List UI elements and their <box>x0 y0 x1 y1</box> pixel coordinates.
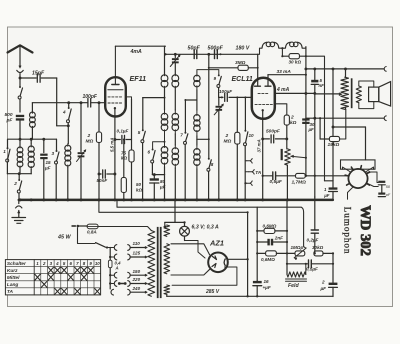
svg-text:EF11: EF11 <box>130 74 147 83</box>
node <box>164 97 166 99</box>
svg-text:Kurz: Kurz <box>7 268 18 274</box>
ground symbol <box>12 218 26 224</box>
switch 7 <box>180 100 188 200</box>
capacitor 1uF <box>323 187 337 200</box>
ECL11 pentode anode pin <box>265 75 271 87</box>
wire <box>41 78 57 126</box>
node <box>113 138 116 175</box>
coil osc mid <box>194 110 200 145</box>
wire mains feed 2 <box>117 200 306 248</box>
node <box>207 53 210 56</box>
wire <box>236 144 238 200</box>
capacitor interference 1 <box>378 181 385 193</box>
selector rail <box>109 248 111 289</box>
svg-text:nF: nF <box>319 83 325 88</box>
output transformer core <box>351 78 353 108</box>
resistor 50k <box>121 140 142 200</box>
wire grid-cap line <box>306 116 387 121</box>
EF11 cathode <box>114 107 116 117</box>
resistor 0.6M a <box>257 224 287 234</box>
svg-text:150: 150 <box>133 269 141 274</box>
switch 2 <box>13 174 22 200</box>
label 180V <box>236 46 250 52</box>
wire <box>258 48 262 54</box>
wire <box>98 227 151 231</box>
node <box>208 67 259 69</box>
svg-text:6,3 V; 0,3 A: 6,3 V; 0,3 A <box>192 225 220 231</box>
svg-text:2: 2 <box>87 133 91 139</box>
antenna plug connector <box>17 70 24 78</box>
choke L5 <box>262 42 279 48</box>
wire heater tap <box>164 199 177 229</box>
svg-text:2: 2 <box>225 133 229 139</box>
node <box>285 137 288 140</box>
svg-text:100µF: 100µF <box>219 89 232 94</box>
switch position table <box>5 260 100 296</box>
node <box>304 74 307 95</box>
wire grid rail <box>32 102 87 104</box>
pilot lamp 6.3V 0.3A <box>180 222 219 240</box>
svg-text:2: 2 <box>42 261 46 266</box>
wire socket lead <box>348 187 354 200</box>
svg-text:500pF: 500pF <box>266 129 281 135</box>
svg-text:1,7MΩ: 1,7MΩ <box>292 179 307 185</box>
wire antenna-coil top rail <box>8 139 57 148</box>
wire <box>175 221 186 223</box>
svg-text:pF: pF <box>385 193 391 197</box>
svg-text:pF: pF <box>6 118 14 124</box>
wire <box>185 241 206 259</box>
svg-text:220: 220 <box>132 277 141 282</box>
capacitor 500pF <box>5 112 25 124</box>
svg-text:kΩ: kΩ <box>290 120 297 126</box>
svg-text:15pF: 15pF <box>32 71 45 77</box>
switch 1 <box>3 147 10 174</box>
node <box>184 99 186 101</box>
wire 4mA anode feed <box>115 46 165 55</box>
node <box>313 92 316 120</box>
wire screen feed <box>256 207 258 281</box>
ECL11 internal grid <box>255 93 275 104</box>
wire EF11 screen line <box>126 97 132 150</box>
capacitor 15pF <box>32 71 45 83</box>
svg-text:TA: TA <box>255 170 262 176</box>
capacitor 0.5uF <box>286 260 334 271</box>
variable capacitor tone <box>214 97 223 199</box>
socket 240 <box>111 286 148 295</box>
resistor 19k <box>320 109 346 148</box>
label Lumophon <box>342 207 352 255</box>
switch contact 1a <box>18 78 22 112</box>
capacitor 50pF <box>188 46 201 59</box>
capacitor 50nF <box>97 170 115 183</box>
choke L6 <box>285 42 302 48</box>
svg-text:2: 2 <box>13 181 17 186</box>
svg-text:500: 500 <box>5 112 13 118</box>
svg-text:6: 6 <box>148 150 151 155</box>
EF11 anode pin <box>112 46 119 84</box>
svg-text:15: 15 <box>46 160 52 165</box>
mains plug lead <box>72 225 88 228</box>
svg-text:1: 1 <box>3 149 6 154</box>
heater winding 6.3V <box>164 225 170 236</box>
svg-text:WD 302: WD 302 <box>357 205 373 256</box>
wire <box>367 172 379 183</box>
wire 4mA screen <box>275 87 315 93</box>
speaker <box>369 82 391 106</box>
capacitor 2nF <box>256 236 288 246</box>
ground plug <box>15 200 22 217</box>
HV winding <box>164 244 170 274</box>
output transformer primary <box>341 69 349 109</box>
svg-text:2nF: 2nF <box>274 236 283 241</box>
trimmer capacitor osc padder <box>170 54 180 74</box>
wire ECL11 cathode 37mA <box>256 118 262 200</box>
coil L2 medium-wave antenna <box>28 139 34 174</box>
svg-text:5: 5 <box>138 130 141 135</box>
node <box>153 173 156 176</box>
wire anode to output transformer <box>315 93 342 96</box>
svg-text:16: 16 <box>264 279 270 284</box>
svg-text:Schalter: Schalter <box>7 261 27 267</box>
svg-text:3MΩ: 3MΩ <box>235 60 246 66</box>
speaker housing box <box>341 160 376 169</box>
svg-text:30kΩ: 30kΩ <box>312 245 324 250</box>
node <box>261 137 264 140</box>
switch 8 <box>207 54 214 200</box>
bus junctions <box>19 198 289 201</box>
node <box>67 101 70 104</box>
svg-text:1MΩp: 1MΩp <box>291 245 304 250</box>
svg-text:µF: µF <box>44 166 51 171</box>
node <box>174 53 177 56</box>
label 45W <box>57 234 71 240</box>
svg-text:0,5µF: 0,5µF <box>306 266 318 271</box>
wire <box>286 200 288 264</box>
capacitor 0.2uF <box>307 197 319 242</box>
coil IFT1 secondary top <box>172 74 179 110</box>
wire <box>57 125 69 127</box>
svg-text:AZ1: AZ1 <box>209 239 224 248</box>
capacitor 15uF <box>40 139 51 199</box>
node <box>305 157 307 159</box>
tube EF11 <box>105 74 146 117</box>
wire mains feed <box>99 200 248 212</box>
wire <box>281 48 283 56</box>
node <box>304 67 347 70</box>
svg-text:50pF: 50pF <box>188 46 201 52</box>
svg-text:2: 2 <box>290 115 294 121</box>
border frame <box>8 27 393 307</box>
coil osc bottom <box>194 145 200 200</box>
coil L1 long-wave antenna <box>17 139 23 174</box>
wire EF11 cathode line <box>110 117 115 200</box>
wire <box>143 97 165 99</box>
rectifier heater winding <box>164 285 170 294</box>
label WD 302 <box>357 205 373 256</box>
coil IFT1 primary bottom <box>161 144 168 200</box>
AZ1 anode wires <box>171 244 210 275</box>
wire 180V rail <box>165 53 257 55</box>
tube AZ1 <box>208 239 228 273</box>
node <box>262 175 264 177</box>
switch 4 <box>62 103 71 126</box>
coil IFT1 primary top <box>161 74 168 110</box>
capacitor 16uF reservoir <box>253 279 271 296</box>
svg-text:TA: TA <box>7 289 14 295</box>
ECL11 cathode <box>262 109 264 118</box>
ECL11 triode anode pin <box>255 54 261 86</box>
coil IFT1 secondary mid <box>172 110 179 145</box>
capacitor 30uF cathode bypass <box>302 47 315 176</box>
output transformer secondary <box>356 86 361 103</box>
resistor 2M AF grid <box>224 97 240 144</box>
socket 220 with plug <box>110 277 147 286</box>
socket 110 <box>110 241 147 250</box>
coil IFT1 secondary bottom <box>172 145 179 200</box>
node <box>221 96 247 98</box>
svg-text:125: 125 <box>133 251 141 256</box>
wire <box>332 69 334 181</box>
svg-text:45 W: 45 W <box>57 234 71 240</box>
capacitor 0.5uF hum <box>263 172 296 185</box>
wire <box>302 47 306 48</box>
capacitor interference 2 <box>378 185 391 197</box>
svg-text:110: 110 <box>133 241 141 246</box>
fuse 0.8A <box>87 224 98 234</box>
svg-text:Lang: Lang <box>7 282 19 288</box>
jack TA 1 <box>247 158 253 163</box>
wire <box>279 47 286 57</box>
resistor 2M grid leak <box>86 103 102 200</box>
capacitor 500pF cathode <box>263 129 287 143</box>
node antenna junction <box>19 77 22 80</box>
fuse 0.4A <box>108 260 121 270</box>
coil L3 antenna coupling <box>30 103 36 140</box>
wire <box>332 253 334 282</box>
potentiometer 1M <box>291 245 307 260</box>
resistor 30k parallel <box>282 54 306 65</box>
resistor 75k screen <box>121 150 134 200</box>
socket 125 <box>110 251 147 260</box>
svg-text:100pF: 100pF <box>83 94 98 100</box>
antenna <box>8 45 33 68</box>
wire speaker lead <box>333 127 366 160</box>
EF11 internal grids <box>108 90 123 103</box>
svg-text:0,1µF: 0,1µF <box>117 129 129 134</box>
svg-text:180 V: 180 V <box>236 46 250 52</box>
socket 150 <box>110 269 147 278</box>
svg-text:4mA: 4mA <box>130 49 142 55</box>
svg-text:285 V: 285 V <box>205 289 220 295</box>
svg-text:µF: µF <box>320 286 327 291</box>
wire choke feed down <box>305 55 325 181</box>
svg-text:500pF: 500pF <box>208 46 224 52</box>
svg-text:Mittel: Mittel <box>7 275 20 281</box>
svg-text:240: 240 <box>132 286 141 291</box>
wire <box>152 174 164 176</box>
wire <box>19 121 21 139</box>
svg-text:0,6MΩ: 0,6MΩ <box>263 224 277 229</box>
coil IFT1 primary mid <box>161 110 168 144</box>
node <box>67 124 70 127</box>
switch 5 <box>138 98 146 200</box>
wire <box>314 234 316 255</box>
tube ECL11 <box>232 76 275 119</box>
svg-text:ECL11: ECL11 <box>232 76 253 83</box>
node <box>123 139 125 141</box>
wire AZ1 cathode out <box>228 258 249 260</box>
wire AZ1 filament return <box>172 267 237 285</box>
wire <box>343 167 350 172</box>
capacitor 2uF <box>320 280 338 297</box>
wire <box>185 99 197 101</box>
svg-text:A: A <box>115 265 119 270</box>
wire <box>367 183 379 187</box>
wire osc coil bracket <box>197 70 219 75</box>
svg-text:30 kΩ: 30 kΩ <box>289 60 302 65</box>
speaker plug socket <box>348 169 367 188</box>
svg-text:4: 4 <box>62 110 66 115</box>
capacitor 5nF snubber <box>311 69 324 197</box>
wire 285V return <box>167 289 333 297</box>
power transformer primary <box>148 231 155 297</box>
svg-text:+µF: +µF <box>263 285 271 290</box>
node <box>18 172 21 175</box>
capacitor 500pF coupling <box>208 46 224 59</box>
wire <box>359 102 374 109</box>
field coil Feld <box>286 263 307 289</box>
wire 33mA pentode anode <box>268 69 306 75</box>
svg-text:0,8A: 0,8A <box>87 230 97 235</box>
capacitor 100pF AF coupling <box>219 89 252 101</box>
svg-text:19kΩ: 19kΩ <box>328 142 340 148</box>
node <box>98 173 101 176</box>
jack TA 3 <box>244 181 252 186</box>
svg-text:37 mA: 37 mA <box>256 139 261 152</box>
resistor 0.6M b <box>257 251 295 262</box>
resistor 3M grid leak <box>209 60 258 70</box>
svg-text:3: 3 <box>52 151 55 156</box>
svg-text:0,5µF: 0,5µF <box>270 179 283 185</box>
coil L4 oscillator <box>65 126 71 200</box>
variable capacitor tuning <box>77 103 87 200</box>
svg-text:0,2µF: 0,2µF <box>307 237 319 242</box>
potentiometer feedback <box>281 149 306 200</box>
node <box>80 101 83 104</box>
node <box>286 230 288 255</box>
wire <box>20 77 36 79</box>
svg-text:µF: µF <box>308 127 315 132</box>
coil osc top <box>194 72 200 110</box>
svg-text:8: 8 <box>211 162 214 167</box>
wire osc tap <box>197 138 210 140</box>
node <box>164 53 166 55</box>
node <box>319 117 321 119</box>
switch 6 <box>148 142 165 175</box>
wire coil bottom rail <box>7 173 31 175</box>
svg-text:kΩ: kΩ <box>136 188 143 193</box>
node <box>98 101 101 104</box>
switch 10 <box>244 97 255 199</box>
svg-text:33 mA: 33 mA <box>277 69 292 75</box>
svg-text:2: 2 <box>321 280 325 285</box>
svg-text:9: 9 <box>214 76 217 81</box>
jack TA 2 <box>245 169 261 176</box>
switch 3 <box>52 139 60 199</box>
capacitor 80uF electrolytic <box>150 175 166 200</box>
node <box>164 141 166 143</box>
svg-text:MΩ: MΩ <box>224 139 232 145</box>
svg-text:50: 50 <box>136 182 142 187</box>
wire <box>91 102 105 104</box>
wire B+ rail <box>306 67 387 72</box>
wire raw B+ <box>247 211 249 296</box>
capacitor 100pF <box>83 94 98 107</box>
wire bracket <box>325 181 334 187</box>
svg-text:Feld: Feld <box>288 283 299 289</box>
chassis bus <box>19 199 333 202</box>
svg-text:10: 10 <box>95 261 100 266</box>
capacitor 0.1uF cathode <box>115 129 132 144</box>
svg-text:0,6MΩ: 0,6MΩ <box>261 257 275 262</box>
switch 9 <box>214 74 222 97</box>
svg-text:4: 4 <box>55 261 59 266</box>
svg-text:MΩ: MΩ <box>86 139 94 145</box>
svg-text:10: 10 <box>249 133 255 138</box>
svg-text:4 mA: 4 mA <box>276 87 290 93</box>
svg-text:7: 7 <box>180 133 183 138</box>
resistor 30k tone <box>312 245 334 256</box>
svg-text:50nF: 50nF <box>97 178 108 183</box>
wire <box>359 81 374 87</box>
mains switch <box>78 228 111 249</box>
resistor 2k cathode <box>275 104 297 149</box>
AZ1 filament marks <box>212 256 226 268</box>
wire <box>366 167 373 172</box>
resistor 1.7M hum <box>292 173 348 185</box>
wire <box>164 46 166 74</box>
node <box>220 53 222 55</box>
socket pins <box>345 166 369 185</box>
wire <box>245 161 246 183</box>
svg-text:Lumophon: Lumophon <box>342 207 352 255</box>
node <box>332 126 335 129</box>
node <box>19 138 46 141</box>
svg-text:µF: µF <box>323 193 330 198</box>
power transformer core <box>157 227 162 298</box>
